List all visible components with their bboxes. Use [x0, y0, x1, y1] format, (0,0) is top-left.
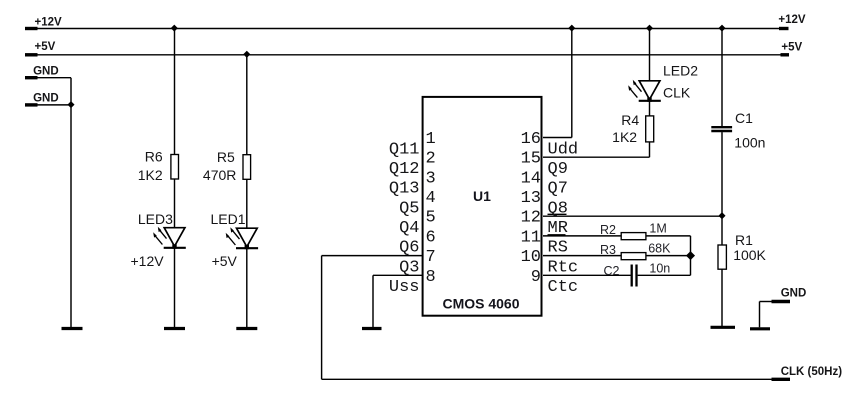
svg-text:1K2: 1K2 [612, 129, 637, 145]
svg-text:14: 14 [521, 169, 541, 188]
svg-text:+5V: +5V [781, 42, 802, 54]
svg-text:+12V: +12V [35, 16, 63, 28]
svg-text:+5V: +5V [212, 253, 238, 269]
svg-text:15: 15 [521, 150, 541, 169]
svg-text:R5: R5 [217, 149, 235, 165]
svg-text:Uss: Uss [389, 278, 420, 297]
svg-text:100K: 100K [733, 247, 766, 263]
svg-text:470R: 470R [203, 167, 236, 183]
svg-text:6: 6 [426, 228, 436, 247]
svg-text:Rtc: Rtc [548, 258, 579, 277]
svg-text:LED2: LED2 [663, 63, 698, 79]
svg-text:Q13: Q13 [389, 180, 420, 199]
svg-text:CLK (50Hz): CLK (50Hz) [781, 366, 843, 378]
svg-text:GND: GND [33, 93, 59, 105]
svg-text:+5V: +5V [35, 41, 56, 53]
svg-text:Q9: Q9 [548, 160, 568, 179]
svg-text:C2: C2 [604, 264, 620, 278]
svg-text:GND: GND [781, 287, 807, 299]
svg-text:2: 2 [426, 150, 436, 169]
svg-text:8: 8 [426, 268, 436, 287]
svg-text:+12V: +12V [778, 14, 806, 26]
svg-text:R6: R6 [145, 148, 163, 164]
svg-text:Ctc: Ctc [548, 278, 579, 297]
svg-text:12: 12 [521, 209, 541, 228]
svg-text:7: 7 [426, 248, 436, 267]
svg-text:Q3: Q3 [399, 258, 419, 277]
svg-text:R3: R3 [600, 243, 616, 257]
svg-text:R1: R1 [735, 232, 753, 248]
svg-text:Q6: Q6 [399, 239, 419, 258]
svg-text:68K: 68K [648, 242, 671, 256]
svg-text:+12V: +12V [131, 253, 165, 269]
svg-text:C1: C1 [735, 110, 753, 126]
svg-text:1M: 1M [649, 222, 666, 236]
svg-text:Q5: Q5 [399, 199, 419, 218]
svg-text:MR: MR [548, 219, 568, 238]
svg-text:10n: 10n [649, 262, 670, 276]
svg-text:LED1: LED1 [211, 211, 246, 227]
svg-text:1: 1 [426, 130, 436, 149]
svg-text:10: 10 [521, 248, 541, 267]
svg-text:Q12: Q12 [389, 160, 420, 179]
svg-text:Udd: Udd [548, 140, 579, 159]
svg-text:Q4: Q4 [399, 219, 419, 238]
svg-text:16: 16 [521, 130, 541, 149]
svg-text:1K2: 1K2 [138, 167, 163, 183]
svg-text:U1: U1 [473, 188, 491, 204]
svg-text:3: 3 [426, 169, 436, 188]
svg-text:Q7: Q7 [548, 180, 568, 199]
svg-text:13: 13 [521, 189, 541, 208]
svg-text:5: 5 [426, 209, 436, 228]
svg-text:100n: 100n [734, 135, 765, 151]
svg-text:R4: R4 [621, 112, 639, 128]
svg-text:Q11: Q11 [389, 140, 420, 159]
svg-text:RS: RS [548, 239, 568, 258]
svg-text:LED3: LED3 [138, 211, 173, 227]
svg-text:CLK: CLK [663, 85, 691, 101]
svg-text:R2: R2 [600, 223, 616, 237]
svg-text:Q8: Q8 [548, 199, 568, 218]
svg-text:4: 4 [426, 189, 436, 208]
svg-text:CMOS 4060: CMOS 4060 [442, 296, 519, 312]
svg-text:11: 11 [521, 228, 541, 247]
svg-text:GND: GND [33, 65, 59, 77]
svg-text:9: 9 [531, 268, 541, 287]
